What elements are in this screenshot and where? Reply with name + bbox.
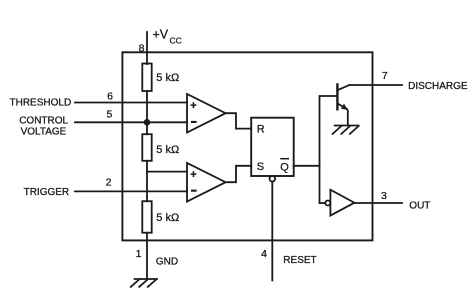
ground symbol at Q1 emitter [333, 126, 359, 134]
svg-text:RESET: RESET [283, 255, 316, 266]
svg-text:5: 5 [107, 109, 113, 121]
svg-text:3: 3 [381, 190, 387, 202]
svg-text:1: 1 [136, 248, 142, 260]
comparator U1 minus sign [191, 121, 197, 123]
op-amp comparator U1 threshold [187, 94, 226, 133]
wire THRESHOLD pin 6 [75, 102, 187, 104]
label Q-bar output [280, 159, 289, 174]
svg-text:6: 6 [107, 91, 113, 103]
svg-text:CONTROL: CONTROL [19, 116, 68, 127]
wire R3 to GND pin 1 [146, 233, 148, 279]
resistor R3 [142, 201, 151, 233]
inverter buffer U4 [325, 190, 354, 216]
svg-text:+: + [190, 100, 196, 112]
wire CONTROL VOLTAGE pin 5 [75, 121, 187, 123]
svg-text:2: 2 [106, 177, 112, 189]
wire OUT pin 3 [354, 202, 402, 204]
label CONTROL VOLTAGE [19, 116, 68, 138]
wire collector to DISCHARGE pin 7 [349, 84, 402, 86]
svg-text:5 kΩ: 5 kΩ [156, 212, 179, 224]
svg-text:8: 8 [139, 42, 145, 54]
svg-text:7: 7 [382, 70, 388, 82]
svg-text:+V: +V [153, 28, 169, 42]
transistor Q1 [337, 85, 349, 126]
svg-text:Q: Q [280, 161, 289, 173]
wire TRIGGER pin 2 [75, 190, 187, 192]
node control voltage junction [145, 120, 150, 125]
label +Vcc [153, 28, 182, 46]
svg-text:OUT: OUT [409, 200, 430, 211]
wire R1 to R2 [146, 91, 148, 134]
wire U1 output to R input [226, 113, 252, 128]
reset bubble on flip-flop [270, 176, 276, 182]
wire U2 output to S input [226, 166, 252, 182]
ground symbol GND [131, 279, 157, 287]
wire RESET pin 4 [271, 182, 273, 281]
svg-text:+: + [190, 169, 196, 181]
svg-text:DISCHARGE: DISCHARGE [408, 81, 468, 92]
svg-text:THRESHOLD: THRESHOLD [10, 98, 72, 109]
comparator U2 minus sign [191, 190, 197, 192]
svg-text:CC: CC [170, 36, 182, 46]
IC package outline [122, 52, 372, 240]
svg-text:VOLTAGE: VOLTAGE [21, 127, 67, 138]
wire +Vcc lead to pin 8 [146, 32, 148, 64]
svg-text:GND: GND [156, 257, 178, 268]
wire R2 to R3 [146, 161, 148, 201]
wire Q-bar to transistor base and inverter input [294, 96, 338, 166]
svg-text:5 kΩ: 5 kΩ [156, 72, 179, 84]
op-amp comparator U2 trigger [187, 163, 226, 202]
resistor R2 [142, 134, 151, 161]
svg-text:S: S [257, 161, 264, 173]
svg-text:4: 4 [261, 248, 267, 260]
svg-text:5 kΩ: 5 kΩ [156, 144, 179, 156]
wire divider tap to comparator U2 plus input [147, 171, 187, 173]
resistor R1 [142, 64, 151, 92]
svg-text:R: R [257, 123, 265, 135]
flip-flop U3 box [251, 118, 294, 176]
svg-text:TRIGGER: TRIGGER [24, 187, 70, 198]
